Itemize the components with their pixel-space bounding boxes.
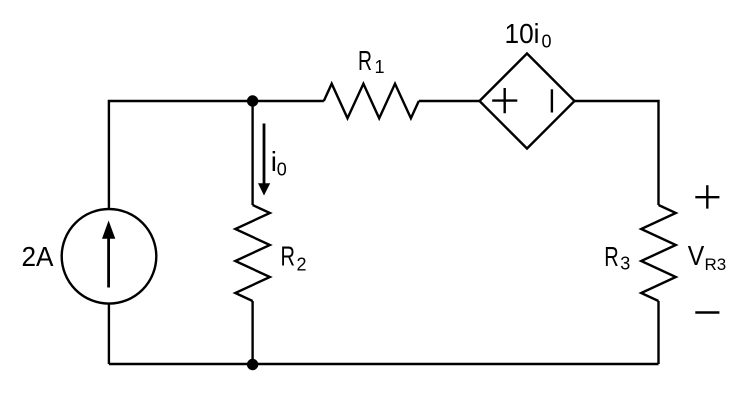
current label i0: [271, 146, 287, 180]
svg-text:0: 0: [277, 160, 287, 180]
plus sign inside dependent source: [492, 88, 517, 113]
svg-text:R: R: [604, 241, 619, 272]
minus sign of VR3: [695, 311, 719, 313]
wire top-left: left corner to R1: [109, 101, 324, 209]
node A junction dot (top): [247, 95, 258, 106]
bottom wire: [109, 363, 659, 365]
svg-text:2: 2: [297, 254, 307, 274]
label R1: [358, 45, 385, 77]
wire dependent source to top-right corner down: [575, 101, 659, 205]
svg-text:1: 1: [375, 57, 385, 77]
resistor R2: [235, 205, 270, 301]
plus sign of VR3: [695, 185, 719, 208]
svg-text:10i: 10i: [505, 18, 540, 49]
node B junction dot (bottom): [247, 359, 258, 370]
label R2: [281, 241, 307, 275]
svg-text:0: 0: [542, 31, 552, 51]
current arrow i0: [258, 124, 270, 196]
resistor R3: [641, 205, 676, 301]
wire R3 to bottom-right corner: [657, 301, 659, 364]
svg-text:3: 3: [620, 254, 630, 274]
current source arrow: [102, 221, 115, 288]
value label 10i0: [505, 18, 552, 51]
svg-text:R: R: [358, 45, 372, 76]
dependent source U1 10i0 diamond: [480, 54, 575, 149]
label VR3: [688, 240, 726, 274]
wire R2 to bottom node: [251, 301, 253, 364]
svg-text:V: V: [688, 240, 705, 271]
svg-text:2A: 2A: [22, 241, 54, 272]
wire node A down to R2: [251, 101, 253, 205]
wire bottom-left corner to current source: [108, 304, 110, 364]
current source I1 circle: [62, 209, 157, 304]
minus bar inside dependent source: [551, 89, 553, 112]
wire R1 to dependent source: [419, 100, 480, 102]
svg-text:R: R: [281, 241, 296, 272]
label R3: [604, 241, 630, 274]
resistor R1: [324, 84, 419, 119]
svg-text:R3: R3: [705, 255, 727, 274]
